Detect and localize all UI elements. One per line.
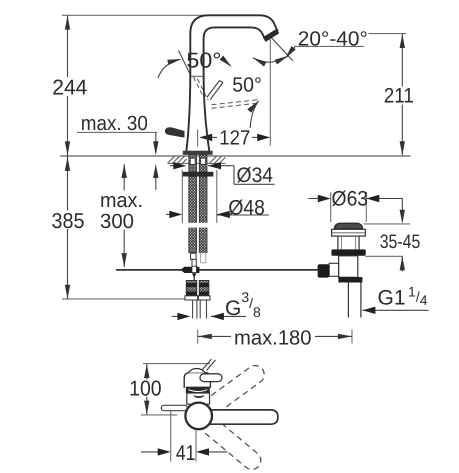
svg-text:41: 41 xyxy=(176,441,196,465)
svg-text:20°-40°: 20°-40° xyxy=(298,27,368,50)
svg-text:50°: 50° xyxy=(186,48,221,72)
svg-text:max.: max. xyxy=(100,189,143,212)
svg-text:244: 244 xyxy=(52,76,87,100)
svg-text:127: 127 xyxy=(219,127,250,150)
svg-text:max.180: max.180 xyxy=(234,327,312,350)
svg-text:max. 30: max. 30 xyxy=(81,112,148,135)
svg-text:300: 300 xyxy=(100,210,134,233)
svg-text:50°: 50° xyxy=(232,74,262,97)
svg-text:Ø48: Ø48 xyxy=(228,196,265,219)
svg-text:Ø63: Ø63 xyxy=(332,188,369,211)
svg-text:Ø34: Ø34 xyxy=(237,164,274,187)
svg-text:100: 100 xyxy=(129,377,162,401)
svg-text:385: 385 xyxy=(52,209,85,233)
svg-text:35-45: 35-45 xyxy=(380,231,421,253)
svg-text:211: 211 xyxy=(384,85,414,108)
